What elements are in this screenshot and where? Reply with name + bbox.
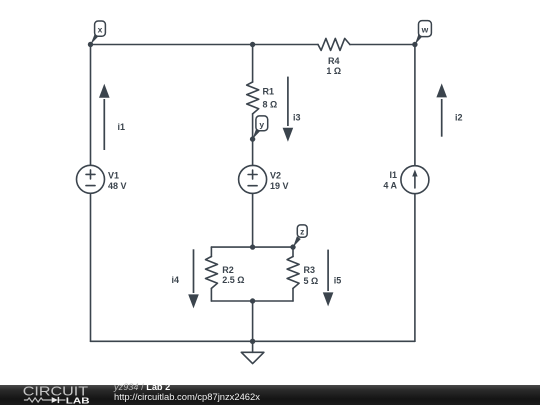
svg-text:V2: V2 bbox=[270, 171, 281, 181]
svg-text:2.5 Ω: 2.5 Ω bbox=[222, 275, 244, 285]
current arrow i3 bbox=[283, 77, 294, 142]
junction parallel top center bbox=[250, 244, 255, 249]
resistor R1 bbox=[247, 82, 259, 114]
svg-text:i2: i2 bbox=[455, 113, 463, 123]
wire right branch upper bbox=[414, 45, 416, 166]
footer bar bbox=[0, 385, 540, 405]
svg-text:R3: R3 bbox=[304, 265, 316, 275]
svg-text:z: z bbox=[300, 227, 304, 237]
wire R2 top lead bbox=[210, 247, 212, 256]
svg-text:http://circuitlab.com/cp87jnzx: http://circuitlab.com/cp87jnzx2462x bbox=[114, 391, 260, 402]
wire network to bottom rail bbox=[252, 301, 254, 341]
svg-text:1 Ω: 1 Ω bbox=[326, 66, 341, 76]
wire R3 bottom lead bbox=[292, 288, 294, 301]
wire R2 bottom lead bbox=[210, 288, 212, 301]
svg-text:R4: R4 bbox=[328, 56, 340, 66]
svg-text:4 A: 4 A bbox=[383, 181, 397, 191]
svg-text:19 V: 19 V bbox=[270, 181, 289, 191]
ground bbox=[241, 341, 264, 363]
node w flag bbox=[415, 21, 432, 45]
wire left branch lower bbox=[90, 193, 92, 341]
wire middle branch upper bbox=[252, 45, 254, 83]
svg-text:x: x bbox=[98, 25, 103, 35]
node z flag bbox=[293, 225, 307, 247]
svg-text:R1: R1 bbox=[263, 87, 275, 97]
wire parallel network bottom bbox=[211, 300, 293, 302]
wire parallel network top bbox=[211, 246, 293, 248]
wire bottom rail bbox=[91, 340, 415, 342]
wire top rail left segment bbox=[91, 44, 319, 46]
svg-text:i1: i1 bbox=[118, 122, 126, 132]
voltage source V1 bbox=[77, 165, 105, 193]
svg-text:I1: I1 bbox=[389, 170, 397, 180]
current source I1 bbox=[401, 166, 429, 194]
current arrow i1 bbox=[99, 84, 110, 150]
current arrow i2 bbox=[436, 83, 447, 136]
svg-text:5 Ω: 5 Ω bbox=[304, 276, 319, 286]
wire V2 to parallel network bbox=[252, 193, 254, 247]
junction node top-right (w) bbox=[412, 42, 417, 47]
current arrow i4 bbox=[188, 249, 199, 308]
current source I1 arrowhead bbox=[412, 170, 417, 177]
resistor R3 bbox=[287, 257, 299, 289]
svg-text:48 V: 48 V bbox=[108, 181, 127, 191]
wire R3 top lead bbox=[292, 247, 294, 256]
voltage source V2 bbox=[239, 165, 267, 193]
wire right branch lower bbox=[414, 194, 416, 342]
svg-text:y: y bbox=[259, 119, 264, 129]
junction middle top bbox=[250, 42, 255, 47]
junction node y bbox=[250, 136, 255, 141]
svg-text:R2: R2 bbox=[222, 265, 234, 275]
wire left branch upper bbox=[90, 45, 92, 166]
svg-text:LAB: LAB bbox=[66, 397, 90, 405]
junction parallel bottom center bbox=[250, 298, 255, 303]
wire R1 to node y junction bbox=[252, 114, 254, 165]
junction node top-left (x) bbox=[88, 42, 93, 47]
junction node z corner bbox=[290, 244, 295, 249]
node x flag bbox=[91, 21, 106, 45]
junction ground bbox=[250, 339, 255, 344]
svg-text:V1: V1 bbox=[108, 171, 119, 181]
CircuitLab logo bbox=[23, 385, 90, 405]
wire top rail right segment bbox=[350, 44, 415, 46]
svg-text:8 Ω: 8 Ω bbox=[263, 100, 278, 110]
current arrow i5 bbox=[323, 250, 334, 307]
resistor R2 bbox=[206, 257, 218, 289]
svg-text:i3: i3 bbox=[293, 113, 301, 123]
svg-text:i4: i4 bbox=[172, 275, 180, 285]
resistor R4 bbox=[318, 38, 350, 50]
svg-text:i5: i5 bbox=[334, 276, 342, 286]
svg-text:w: w bbox=[421, 25, 429, 35]
node y flag bbox=[252, 116, 267, 139]
